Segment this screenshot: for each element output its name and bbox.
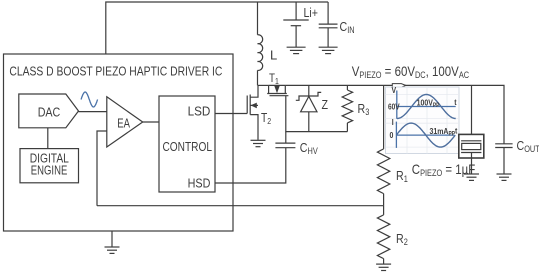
control block [159,96,215,192]
IC outline box [4,54,234,231]
wire DAC to EA [79,111,107,113]
op-amp EA [107,97,143,147]
wire feedback into EA [97,131,107,206]
resistor R1 [377,85,408,205]
capacitor COUT [495,138,539,174]
wire T1 gate down [286,96,348,132]
svg-text:Z: Z [322,97,329,112]
waveform inset [386,86,460,154]
node arrow tap on rail [392,84,406,88]
resistor R2 [377,206,408,264]
svg-text:V: V [392,86,397,96]
svg-text:DAC: DAC [38,105,61,120]
wire output rail [285,85,504,143]
svg-text:I: I [392,117,394,127]
svg-text:t: t [455,126,458,136]
wire HSD output [215,148,286,183]
wire top supply rail [106,2,328,54]
wire switch node [258,84,269,86]
ground R2 [376,263,391,265]
svg-text:CONTROL: CONTROL [163,140,213,154]
sine squiggle [81,92,98,107]
capacitor CIN [319,2,355,47]
svg-text:HSD: HSD [188,176,211,190]
wire LSD to T2 gate [215,113,247,115]
ground CIN [319,46,338,48]
transistor T2 [247,85,271,139]
ground piezo [464,173,479,175]
ground IC [111,231,113,247]
svg-text:ENGINE: ENGINE [31,164,68,178]
piezo element [459,85,484,173]
transistor T1 [267,72,288,96]
ground T2 [251,139,266,141]
wire EA output [143,121,159,123]
battery Li+ [283,2,318,47]
svg-text:60V: 60V [388,102,400,112]
ground COUT [497,173,512,175]
capacitor CHV [275,132,318,157]
ground battery [287,46,306,48]
digital engine block [20,149,79,183]
DAC block [19,94,79,128]
resistor R3 [342,85,369,131]
wire feedback run [97,205,384,207]
zener diode Z [296,85,328,131]
svg-text:0: 0 [390,130,394,140]
wire DAC to digital engine [47,128,49,149]
svg-text:CLASS D BOOST PIEZO HAPTIC DRI: CLASS D BOOST PIEZO HAPTIC DRIVER IC [9,63,222,78]
svg-text:Li+: Li+ [304,5,319,20]
svg-text:LSD: LSD [188,104,211,118]
svg-text:t: t [454,97,457,107]
svg-text:EA: EA [117,117,130,131]
inductor L [258,2,263,85]
svg-text:L: L [270,48,277,63]
